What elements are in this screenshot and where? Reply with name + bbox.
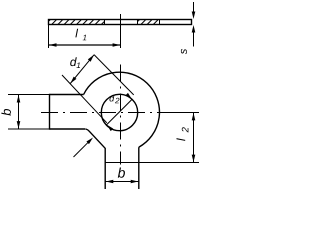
tab bend line <box>105 162 199 164</box>
leader line to cut edge <box>74 141 90 157</box>
d2 label <box>110 95 115 102</box>
d1 lower extension line <box>62 75 107 123</box>
dimension d2 line <box>107 99 132 124</box>
b top extension line <box>8 94 50 96</box>
l1 arrow right <box>113 43 121 47</box>
cut-out diagonal edge <box>86 129 105 148</box>
vertical centerline <box>120 65 122 165</box>
d2 arrow upper <box>125 93 133 101</box>
dimension b2 line <box>106 181 139 183</box>
horizontal centerline <box>41 112 160 114</box>
section hatching left <box>49 20 50 21</box>
s label <box>181 49 187 54</box>
b label <box>1 109 11 116</box>
dimension d1 line <box>70 55 94 84</box>
tab end edge <box>49 94 51 130</box>
d1 arrow upper <box>88 54 96 62</box>
hole circle <box>101 94 137 130</box>
d1 upper extension line <box>94 55 134 95</box>
b2 arrow left <box>106 180 114 184</box>
b arrow up <box>17 95 21 103</box>
washer section outline <box>49 20 192 25</box>
l2 label <box>177 138 186 141</box>
l1 arrow left <box>49 43 57 47</box>
l2 top extension line <box>160 112 199 114</box>
dimension l1 line <box>49 44 120 46</box>
b bottom extension line <box>8 128 50 130</box>
d1 arrow lower <box>69 77 77 85</box>
outer edge line in section <box>159 20 161 25</box>
section hole centerline <box>120 14 122 48</box>
dimension s lower arrow <box>193 30 195 47</box>
b2 label <box>118 167 125 177</box>
l2 arrow bottom <box>192 155 196 163</box>
dimension b line <box>18 95 20 129</box>
tab bottom edge <box>50 128 86 130</box>
l1 label <box>75 29 78 38</box>
d2 arrow lower <box>105 123 113 131</box>
leader arrow <box>86 136 94 144</box>
tab top edge <box>50 94 84 96</box>
outer circle of washer <box>84 72 160 147</box>
bent tab right edge <box>138 147 140 189</box>
b arrow down <box>17 121 21 129</box>
hole left edge in section <box>104 20 106 25</box>
section hatching right <box>138 20 139 21</box>
d1 label <box>70 57 77 66</box>
b2 arrow right <box>131 180 139 184</box>
dimension l1 extension line <box>48 25 50 48</box>
dimension l2 line <box>193 113 195 163</box>
l2 arrow top <box>192 113 196 121</box>
bent tab left edge <box>104 148 106 189</box>
dimension s upper arrow <box>193 2 195 13</box>
hole right edge in section <box>137 20 139 25</box>
